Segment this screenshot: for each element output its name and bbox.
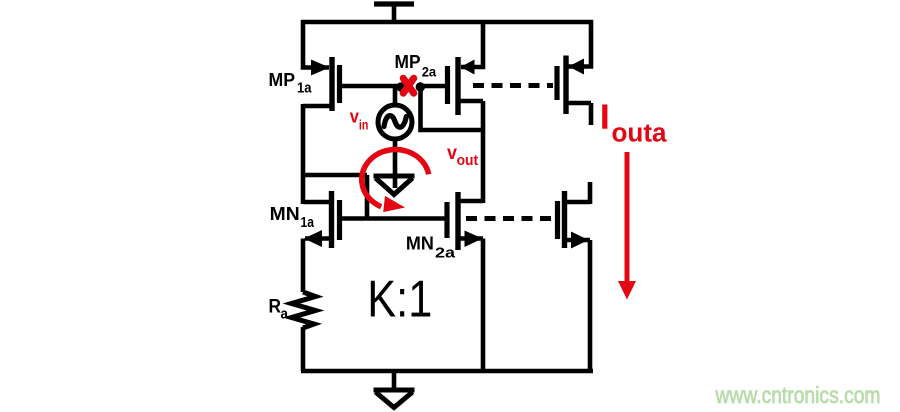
resistor Ra: [292, 292, 316, 328]
wire: dashed gate link MN2a to right NMOS: [466, 216, 554, 221]
VDD supply symbol: [374, 4, 414, 22]
svg-text:2a: 2a: [422, 63, 437, 79]
ground (bottom rail): [374, 371, 415, 408]
label Ra: [269, 297, 289, 323]
svg-text:R: R: [269, 297, 282, 318]
label vout: [447, 142, 478, 169]
label MN1a: [270, 203, 315, 231]
node: broken-loop right endpoint dot: [418, 85, 423, 90]
wire: Ra bottom to ground rail: [301, 327, 306, 371]
wire: MP2a gate lead: [421, 84, 446, 89]
svg-text:out: out: [457, 152, 479, 169]
wire: right NMOS source to ground rail: [567, 240, 590, 371]
svg-text:1a: 1a: [301, 215, 315, 231]
svg-text:MN: MN: [270, 203, 300, 224]
transistor MP2a (PMOS, mirrored): [448, 57, 475, 115]
wire: VDD top rail: [301, 20, 593, 25]
wire: MN1a diode connection (drain to gate): [303, 175, 367, 219]
wire: MN2a source to ground rail: [460, 239, 483, 372]
svg-text:K:1: K:1: [367, 270, 432, 328]
transistor MP1a (PMOS): [311, 57, 340, 111]
svg-text:outa: outa: [612, 120, 668, 148]
svg-text:in: in: [359, 117, 369, 132]
wire: right NMOS drain stub: [567, 182, 590, 204]
wire: MN1a source to resistor Ra: [303, 239, 330, 293]
label Iouta: [602, 105, 667, 148]
source vin (AC source circle): [378, 105, 412, 188]
wire: bottom ground rail: [301, 369, 593, 374]
wire: right PMOS drain stub: [566, 103, 591, 125]
transistor MN1a (NMOS, mirrored): [304, 191, 340, 248]
svg-text:www.cntronics.com: www.cntronics.com: [715, 382, 881, 408]
transistor MN2a (NMOS): [447, 192, 483, 250]
node: broken-loop left endpoint dot: [399, 85, 404, 90]
break mark X on MP gate loop: [403, 78, 414, 93]
label MN2a: [406, 233, 456, 262]
svg-text:1a: 1a: [297, 81, 312, 97]
svg-text:2a: 2a: [435, 246, 456, 262]
wire: rail to MP2a source: [461, 20, 483, 67]
wire: MP1a gate to vin node: [341, 86, 402, 105]
wire: MP2a gate-drain diode connection: [421, 84, 484, 130]
ground (under vin source): [374, 176, 415, 195]
transistor right NMOS mirror device: [558, 191, 589, 249]
svg-text:MP: MP: [269, 69, 296, 90]
svg-text:MN: MN: [406, 233, 434, 254]
svg-text:MP: MP: [395, 52, 421, 72]
wire: dashed gate link MP2a to right PMOS: [473, 83, 553, 88]
wire: MP2a drain / vout node down to MN2a drain: [460, 101, 483, 203]
wire: MP1a drain down to MN1a drain: [303, 104, 330, 204]
svg-text:v: v: [350, 106, 359, 126]
loop direction red arc arrow: [362, 150, 429, 207]
wire: NMOS gate line MN1a-MN2a: [341, 216, 445, 221]
label MP1a: [269, 69, 313, 97]
wire: rail to MP1a source: [303, 20, 329, 68]
transistor right PMOS mirror device: [557, 56, 584, 115]
wire: rail to right PMOS source: [567, 20, 591, 67]
Iouta red current arrow: [625, 152, 630, 283]
svg-text:a: a: [281, 307, 289, 323]
label vin: [350, 106, 369, 132]
label MP2a: [395, 52, 437, 79]
